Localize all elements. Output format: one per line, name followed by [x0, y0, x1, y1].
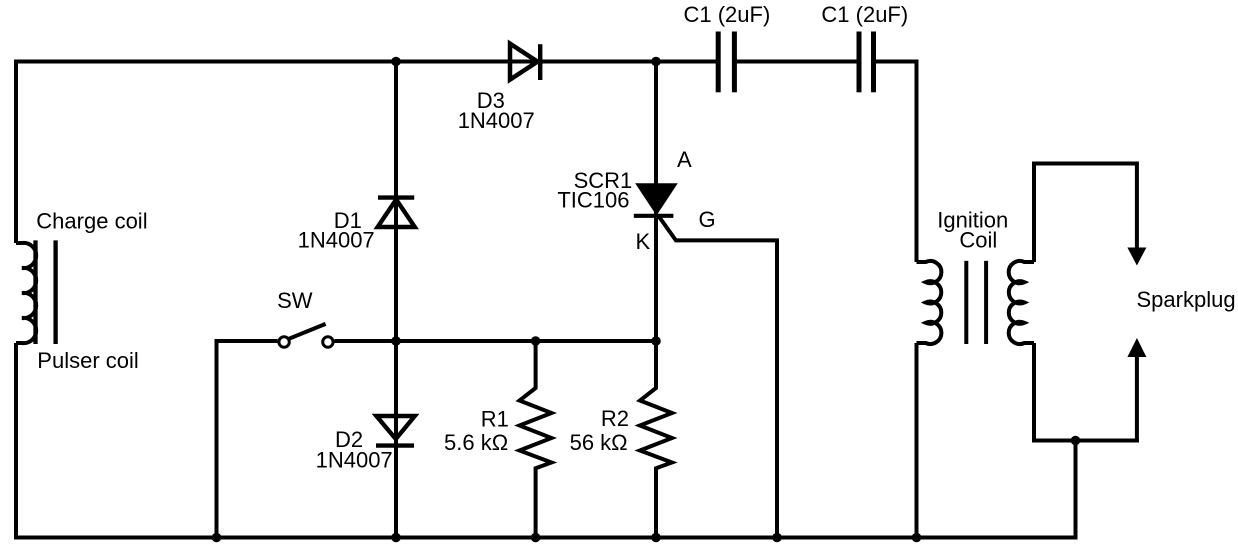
node dot bottom rail at ignition coil	[912, 533, 922, 543]
svg-text:1N4007: 1N4007	[298, 228, 375, 253]
svg-text:SW: SW	[277, 288, 313, 313]
svg-text:C1 (2uF): C1 (2uF)	[684, 2, 771, 27]
SCR1 cathode bar	[634, 214, 674, 218]
diode D1 cathode bar	[378, 195, 414, 199]
wire SCR column (anode from top rail through to node)	[654, 60, 658, 342]
ignition coil primary winding	[917, 261, 942, 344]
wire bottom rail	[16, 536, 1078, 540]
node dot SW row at SCR cathode / R2	[651, 336, 661, 346]
capacitor C1 (right) plate 2	[871, 32, 876, 93]
wire top rail mid segment (between C1 capacitors)	[733, 60, 860, 64]
wire D1/D2 column	[394, 60, 398, 540]
svg-text:R1: R1	[481, 406, 509, 431]
wire left rail lower	[14, 343, 18, 540]
node dot at SCR anode / top rail	[651, 57, 661, 67]
SCR1 thyristor triangle (filled, pointing down)	[637, 184, 676, 213]
svg-text:R2: R2	[601, 406, 629, 431]
switch SW contact circle left	[279, 337, 289, 347]
diode D2 triangle (pointing down)	[376, 416, 414, 439]
node dot at D column / top rail	[391, 57, 401, 67]
ignition coil core bar 1	[964, 261, 968, 344]
charge coil winding	[16, 243, 36, 343]
node dot SW row at R1	[531, 336, 541, 346]
charge coil core bar 1	[33, 240, 37, 344]
wire capacitor output drop	[915, 60, 919, 263]
svg-text:1N4007: 1N4007	[316, 447, 393, 472]
diode D3 triangle	[510, 44, 538, 80]
wire gate run	[659, 217, 777, 540]
wire left rail upper	[14, 60, 18, 244]
capacitor C1 (left) plate 1	[716, 32, 721, 93]
node dot bottom rail at R2	[651, 533, 661, 543]
resistor R2 zigzag	[640, 341, 672, 538]
ignition coil core bar 2	[984, 261, 988, 344]
svg-text:Coil: Coil	[959, 228, 997, 253]
charge coil core bar 2	[53, 240, 57, 344]
svg-text:Sparkplug: Sparkplug	[1137, 287, 1236, 312]
node dot bottom rail at SW drop	[212, 533, 222, 543]
wire ignition coil left lead lower	[915, 343, 919, 540]
wire bottom-right riser	[1074, 441, 1078, 540]
node dot bottom rail at R1	[531, 533, 541, 543]
wire ignition secondary bottom run	[1034, 343, 1139, 441]
capacitor C1 (left) plate 2	[732, 32, 737, 93]
switch SW lever	[289, 324, 326, 339]
svg-text:Pulser coil: Pulser coil	[37, 348, 138, 373]
wire top rail right segment	[872, 60, 919, 64]
svg-text:K: K	[636, 229, 651, 254]
node dot bottom rail at gate drop	[772, 533, 782, 543]
sparkplug down arrowhead	[1127, 248, 1146, 266]
wire SW row left stub	[215, 339, 278, 343]
node dot ignition bottom / riser junction	[1071, 436, 1081, 446]
resistor R1 zigzag	[520, 341, 552, 538]
svg-text:Charge coil: Charge coil	[36, 208, 147, 233]
wire sparkplug up arrow shaft	[1135, 356, 1139, 443]
wire SW row right (through nodes to SCR cathode column)	[334, 339, 658, 343]
svg-text:56 kΩ: 56 kΩ	[570, 430, 628, 455]
wire ignition secondary top run	[1034, 164, 1137, 263]
svg-text:TIC106: TIC106	[557, 188, 629, 213]
svg-text:A: A	[677, 147, 692, 172]
switch SW contact circle right	[323, 337, 333, 347]
node dot SW row at D column	[391, 336, 401, 346]
wire SW left drop	[215, 339, 219, 538]
diode D2 cathode bar	[376, 443, 414, 447]
diode D3 cathode bar	[538, 44, 542, 80]
svg-text:5.6 kΩ: 5.6 kΩ	[444, 430, 508, 455]
svg-text:1N4007: 1N4007	[458, 108, 535, 133]
svg-text:C1 (2uF): C1 (2uF)	[821, 2, 908, 27]
capacitor C1 (right) plate 1	[857, 32, 862, 93]
diode D1 triangle (pointing up)	[378, 200, 415, 228]
sparkplug up arrowhead	[1127, 338, 1146, 357]
ignition coil secondary winding	[1009, 261, 1034, 344]
wire top rail left segment	[16, 60, 716, 64]
svg-text:G: G	[699, 207, 716, 232]
node dot bottom rail at D column	[391, 533, 401, 543]
